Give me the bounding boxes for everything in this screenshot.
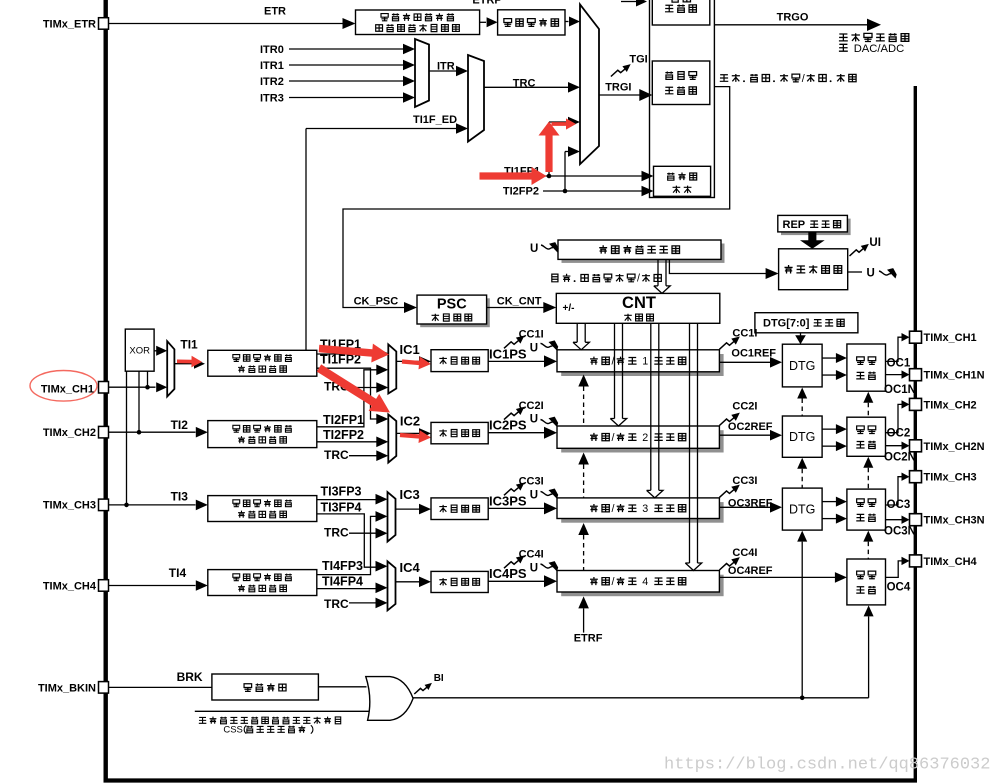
label ETR: [264, 6, 286, 18]
svg-text:TIMx_BKIN: TIMx_BKIN: [38, 683, 96, 695]
label BI: [434, 673, 444, 684]
svg-text:U: U: [867, 268, 875, 280]
svg-text:TI4: TI4: [169, 566, 187, 580]
dashed arrow ctrl3 to ctrl2: [863, 457, 873, 489]
zigzag CC4I right: [719, 557, 739, 570]
label OC3N: [884, 525, 916, 537]
wire TI4FP4: [317, 583, 388, 594]
dashed arrow capture4 to capture3: [578, 523, 589, 570]
input filter edge detector block ch1: [208, 350, 317, 376]
svg-text:DTG: DTG: [789, 503, 815, 517]
wire IC3: [396, 504, 432, 515]
pad TIMx_CH3: [910, 471, 922, 483]
svg-text:ETRF: ETRF: [574, 633, 603, 645]
label reset enable updown count: [720, 73, 856, 85]
wire TRC ch1: [349, 382, 389, 393]
wire OC2: [886, 400, 910, 433]
label TRGI: [605, 82, 631, 94]
prescaler block ch2: [431, 422, 488, 443]
label TRC ch4: [324, 597, 349, 611]
zigzag CC3I left: [504, 482, 524, 495]
svg-text:IC2PS: IC2PS: [489, 418, 527, 433]
pad TIMx_CH4: [910, 555, 922, 567]
svg-text:OC2REF: OC2REF: [728, 421, 773, 433]
red annotation arrow horizontal TI1FP1: [480, 167, 547, 185]
svg-text:U: U: [530, 562, 538, 574]
polarity select block: [212, 674, 319, 700]
label TI2: [171, 418, 189, 432]
wire TI3FP3: [317, 494, 388, 505]
wire BI to ctrl4: [864, 605, 874, 697]
label TI1: [180, 338, 198, 352]
DTG block ch2: [782, 416, 822, 457]
svg-text:TGI: TGI: [629, 54, 647, 66]
input filter block: [498, 10, 565, 35]
svg-text:TI3FP4: TI3FP4: [321, 500, 362, 514]
wire ITR0: [289, 44, 415, 55]
junction TI2FP2: [563, 189, 568, 194]
pad TIMx_CH3N: [910, 514, 922, 526]
zigzag CC1I left: [504, 335, 524, 348]
svg-text:IC4: IC4: [400, 560, 421, 575]
svg-text:TRGO: TRGO: [777, 12, 809, 24]
bottom border: [104, 778, 918, 782]
svg-text:TRC: TRC: [324, 448, 349, 462]
label TIMx_CH3: [43, 500, 96, 512]
label IC2PS: [489, 418, 527, 433]
svg-text:TI2FP2: TI2FP2: [503, 186, 539, 198]
label TIMx_CH2N: [924, 441, 985, 453]
svg-text:TI4FP3: TI4FP3: [322, 559, 363, 573]
label TI4FP3: [322, 559, 363, 573]
wire CSS to OR: [195, 710, 369, 712]
svg-text:/: /: [802, 73, 805, 85]
pad TIMx_CH2N: [910, 440, 922, 452]
svg-text:CC1I: CC1I: [519, 329, 544, 341]
wire TI1: [174, 359, 205, 369]
controller outer box: [650, 0, 715, 198]
encoder interface block: [654, 166, 711, 196]
wire TRGI: [599, 89, 652, 101]
label TI3FP3: [321, 485, 362, 499]
DTG register block: [755, 313, 858, 333]
label CC2I left: [519, 400, 544, 412]
pad TIMx_CH3: [99, 499, 109, 511]
svg-text:BI: BI: [434, 673, 444, 684]
wire TI4FP3 cross up: [317, 511, 388, 574]
svg-text:DAC/ADC: DAC/ADC: [854, 43, 905, 55]
svg-text:/: /: [612, 503, 615, 515]
capture compare register 3: [557, 498, 724, 523]
wire TI1 from pad: [109, 382, 168, 392]
svg-text:CK_PSC: CK_PSC: [354, 296, 399, 308]
hollow arrow CNT to capture2: [610, 323, 626, 426]
wire TI1F_ED: [306, 123, 468, 350]
label TI1FP1 encoder: [504, 166, 540, 178]
block arrow REP to repetition: [800, 232, 825, 249]
wire OC3REF: [719, 502, 782, 513]
hollow arrow CNT to capture4: [685, 323, 701, 570]
mux IC4 select: [388, 561, 396, 610]
wire TI2FP2 to encoder: [543, 186, 654, 197]
label TIMx_CH2: [43, 427, 96, 439]
label TI1FP1: [320, 338, 361, 352]
wire OC3N: [886, 516, 910, 524]
label stop clear updown: [552, 273, 661, 285]
junction BI: [800, 696, 805, 701]
label OC4REF: [728, 565, 773, 577]
svg-text:TIMx_CH1N: TIMx_CH1N: [924, 370, 985, 382]
svg-text:TRC: TRC: [513, 78, 536, 90]
label clock failure event: [199, 717, 341, 724]
wire ITR2: [289, 76, 415, 87]
wire IC2: [396, 428, 431, 439]
wire ETR: [109, 18, 356, 29]
capture compare register 1: [557, 350, 724, 376]
wire OC1: [886, 333, 910, 361]
capture compare register 2: [557, 426, 724, 453]
svg-text:CC4I: CC4I: [732, 547, 757, 559]
svg-text:TIMx_CH1: TIMx_CH1: [41, 383, 94, 395]
input filter edge detector block ch3: [208, 496, 317, 522]
label TI2FP2 encoder: [503, 186, 539, 198]
svg-text:DTG: DTG: [789, 430, 815, 444]
svg-text:BRK: BRK: [177, 670, 203, 684]
label U ch1: [530, 342, 538, 354]
svg-text:TI3: TI3: [171, 490, 189, 504]
dashed arrow capture3 to capture2: [578, 453, 589, 498]
zigzag TGI: [611, 64, 631, 76]
zigzag BI: [414, 683, 432, 694]
label IC3: [400, 487, 420, 502]
right bus line: [914, 86, 917, 781]
pad TIMx_CH4: [99, 580, 109, 592]
wire U repetition: [848, 271, 862, 273]
hollow arrow CNT to capture1: [573, 323, 589, 350]
svg-text:3: 3: [642, 503, 648, 515]
pad TIMx_CH1N: [910, 369, 922, 381]
svg-text:TIMx_CH3: TIMx_CH3: [924, 472, 977, 484]
prescaler block ch1: [431, 350, 488, 372]
svg-text:TIMx_CH2: TIMx_CH2: [924, 399, 977, 411]
wire XOR in CH2: [137, 371, 142, 434]
capture compare register 4: [557, 571, 724, 597]
pad TIMx_CH2: [99, 426, 109, 438]
wire IC1PS: [488, 355, 557, 367]
pad TIMx_BKIN: [99, 682, 109, 694]
svg-text:/: /: [612, 432, 615, 444]
svg-text:IC3PS: IC3PS: [489, 493, 527, 508]
squiggle U ch2: [541, 417, 559, 427]
svg-text:IC4PS: IC4PS: [489, 566, 527, 581]
label U ch3: [530, 489, 538, 501]
label U ch4: [530, 562, 538, 574]
left bus line: [103, 0, 107, 782]
wire TI2FP1 cross up: [317, 365, 389, 427]
svg-text:TRGI: TRGI: [605, 82, 631, 94]
OR gate: [366, 677, 413, 721]
pad TIMx_CH1: [99, 382, 109, 394]
pad TIMx_ETR: [99, 18, 109, 30]
zigzag CC2I right: [719, 413, 739, 426]
svg-text:DTG[7:0]: DTG[7:0]: [763, 318, 810, 330]
prescaler block ch4: [431, 571, 488, 592]
label OC2REF: [728, 421, 773, 433]
output control block ch3: [847, 489, 886, 530]
label U repetition: [867, 268, 875, 280]
label BRK: [177, 670, 203, 684]
svg-text:CC3I: CC3I: [519, 476, 544, 488]
wire CK_CNT: [487, 302, 557, 313]
svg-text:OC1REF: OC1REF: [731, 348, 776, 360]
svg-text:/: /: [612, 576, 615, 588]
red annotation arrow IC2 out: [400, 430, 431, 443]
squiggle U ch1: [541, 340, 559, 350]
junction TI1FP1: [547, 174, 552, 179]
label TIMx_CH4: [924, 556, 978, 568]
svg-text:ITR1: ITR1: [260, 60, 284, 72]
label CC1I left: [519, 329, 544, 341]
label OC3REF: [728, 497, 773, 509]
mux ITR select: [415, 39, 429, 107]
svg-text:ITR0: ITR0: [260, 44, 284, 56]
zigzag CC4I left: [504, 555, 524, 568]
svg-text:XOR: XOR: [129, 346, 150, 357]
label UI: [869, 237, 881, 249]
svg-text:IC1: IC1: [400, 342, 420, 357]
squiggle U auto-reload: [541, 242, 559, 252]
pad TIMx_CH1: [910, 331, 922, 343]
label ITR1: [260, 60, 284, 72]
repetition counter block: [779, 249, 848, 290]
wire TI2FP2 to mux: [565, 146, 580, 191]
svg-text:TI2FP1: TI2FP1: [323, 413, 364, 427]
svg-text:IC3: IC3: [400, 487, 420, 502]
squiggle U ch3: [541, 489, 559, 499]
wire slave mode feedback: [343, 87, 730, 313]
wire BRK: [109, 686, 212, 688]
wire IC1: [396, 356, 431, 367]
svg-text:OC1N: OC1N: [884, 384, 916, 396]
label CSS: [223, 725, 313, 736]
wire TRC ch4: [349, 598, 388, 609]
label TIMx_CH1: [924, 332, 977, 344]
svg-text:TIMx_ETR: TIMx_ETR: [43, 19, 96, 31]
wire XOR output: [154, 346, 167, 356]
label to DAC/ADC: [839, 43, 904, 55]
svg-text:TI2: TI2: [171, 418, 189, 432]
label CC1I right: [732, 328, 757, 340]
auto-reload register block: [558, 240, 725, 263]
label OC2N: [884, 452, 916, 464]
prescaler PSC block: [417, 295, 490, 327]
svg-text:UI: UI: [869, 237, 881, 249]
wire TI1FP1 to encoder: [534, 171, 654, 182]
wire ETRP: [480, 17, 498, 27]
label TRGO: [777, 12, 809, 24]
wire polarity to OR: [318, 686, 366, 688]
label CC4I left: [519, 549, 544, 561]
wire BI: [413, 697, 868, 699]
wire ITR3: [289, 92, 415, 103]
wire IC4PS: [488, 575, 557, 587]
svg-text:CC4I: CC4I: [519, 549, 544, 561]
svg-text:TI1: TI1: [180, 338, 198, 352]
svg-text:TI2FP2: TI2FP2: [323, 428, 364, 442]
wire TI1FP1: [317, 348, 389, 359]
svg-text:+/-: +/-: [563, 303, 575, 314]
svg-text:U: U: [530, 489, 538, 501]
svg-text:TIMx_CH4: TIMx_CH4: [924, 556, 978, 568]
dashed arrow DTG3 to DTG2: [797, 458, 807, 488]
red annotation arrow vertical: [539, 122, 560, 173]
red annotation arrow TI1FP1 to mux: [319, 344, 389, 363]
label TIMx_CH1: [41, 383, 94, 395]
red ellipse around TIMx_CH1: [30, 371, 97, 402]
label TIMx_CH2: [924, 399, 977, 411]
wire IC4: [396, 577, 432, 588]
squiggle U repetition: [879, 268, 897, 278]
label TRC: [513, 78, 536, 90]
label TI4FP4: [322, 574, 363, 588]
wire TI2FP2: [317, 437, 389, 448]
label TI2FP1: [323, 413, 364, 427]
svg-text:TRC: TRC: [324, 597, 349, 611]
svg-text:4: 4: [642, 576, 648, 588]
svg-text:TIMx_CH2N: TIMx_CH2N: [924, 441, 985, 453]
svg-text:ITR: ITR: [437, 61, 455, 73]
label TI3FP4: [321, 500, 362, 514]
zigzag CC1I right: [719, 336, 739, 349]
DTG block ch1: [782, 344, 822, 387]
red annotation arrow TI1FP2 to IC2 mux: [317, 364, 390, 412]
output control block ch4: [847, 559, 886, 605]
label ITR3: [260, 93, 284, 105]
wire TI4: [109, 580, 208, 591]
svg-text:ITR2: ITR2: [260, 76, 284, 88]
label TIMx_CH1N: [924, 370, 985, 382]
svg-text:U: U: [530, 342, 538, 354]
label IC2: [400, 414, 420, 429]
svg-text:CNT: CNT: [622, 294, 656, 312]
svg-text:ITR3: ITR3: [260, 93, 284, 105]
wire OC1REF: [719, 357, 782, 368]
label ITR2: [260, 76, 284, 88]
output control block ch2: [847, 417, 886, 456]
label ETRF: [574, 633, 603, 645]
mux IC2 select: [388, 414, 396, 462]
label TI4: [169, 566, 187, 580]
svg-text:TIMx_CH2: TIMx_CH2: [43, 427, 96, 439]
svg-text:CC3I: CC3I: [732, 475, 757, 487]
mux TI1 select: [167, 341, 174, 396]
svg-text:TIMx_CH4: TIMx_CH4: [43, 581, 97, 593]
wire TRC ch2: [349, 450, 388, 461]
red annotation arrow IC1 out: [402, 357, 431, 370]
svg-text:U: U: [530, 414, 538, 426]
label IC3PS: [489, 493, 527, 508]
label to other timers: [839, 33, 909, 41]
svg-text:OC3N: OC3N: [884, 525, 916, 537]
label IC4PS: [489, 566, 527, 581]
wire TRGO: [714, 19, 881, 31]
mux IC1 select: [388, 344, 396, 393]
svg-text:CC2I: CC2I: [732, 400, 757, 412]
svg-text:1: 1: [642, 356, 648, 368]
wire TRC: [484, 82, 580, 93]
svg-text:/: /: [637, 273, 640, 285]
svg-text:CC1I: CC1I: [732, 328, 757, 340]
label IC1: [400, 342, 420, 357]
hollow arrow CNT to capture3: [647, 323, 663, 498]
REP register block: [778, 215, 851, 235]
svg-text:ETRP: ETRP: [472, 0, 501, 7]
label IC1PS: [489, 346, 527, 361]
svg-text:OC4REF: OC4REF: [728, 565, 773, 577]
svg-text:REP: REP: [783, 219, 806, 231]
wire XOR in CH1: [145, 371, 150, 389]
svg-text:TIMx_CH3N: TIMx_CH3N: [924, 515, 985, 527]
counter CNT block: [556, 293, 720, 323]
wire DTG register to DTG1: [795, 333, 806, 344]
label OC3: [887, 499, 911, 511]
wire OC3: [886, 473, 910, 506]
XOR block: [125, 329, 154, 371]
wire TI2: [109, 427, 208, 438]
wire TI3: [109, 500, 208, 511]
dashed arrow DTG2 to DTG1: [797, 388, 807, 416]
label ITR: [437, 61, 455, 73]
svg-text:ETR: ETR: [264, 6, 286, 18]
wire reload to repetition counter: [669, 259, 778, 279]
label CK_CNT: [497, 296, 542, 308]
hollow arrow reload to CNT: [654, 259, 670, 293]
wire ITR1: [289, 60, 415, 71]
input filter edge detector block ch4: [208, 570, 317, 596]
svg-text:TI3FP3: TI3FP3: [321, 485, 362, 499]
svg-text:OC2N: OC2N: [884, 452, 916, 464]
label TIMx_CH3N: [924, 515, 985, 527]
svg-text:CK_CNT: CK_CNT: [497, 296, 542, 308]
label TIMx_CH4: [43, 581, 97, 593]
wire OC4: [886, 557, 910, 578]
dashed arrow ctrl4 to ctrl3: [863, 531, 873, 559]
wire OC2REF: [719, 430, 782, 441]
wires DTG1 to output control: [822, 353, 847, 380]
pad TIMx_CH2: [910, 398, 922, 410]
label TIMx_CH3: [924, 472, 977, 484]
wire into trigger controller: [621, 0, 647, 7]
DTG block ch3: [782, 488, 822, 530]
wire IC2PS: [488, 427, 557, 439]
svg-text:2: 2: [642, 432, 648, 444]
wires DTG2 to output control: [822, 424, 847, 451]
svg-text:TIMx_CH1: TIMx_CH1: [924, 332, 977, 344]
wire ITR: [429, 66, 468, 77]
label OC1N: [884, 384, 916, 396]
zigzag UI: [850, 244, 869, 256]
label ETRP: [472, 0, 501, 7]
slave mode controller block: [652, 61, 710, 105]
label TI2FP2: [323, 428, 364, 442]
wire BI to DTG3: [797, 531, 807, 698]
wire OC4REF: [719, 572, 847, 583]
wire XOR in CH3: [124, 371, 129, 507]
mux IC3 select: [388, 492, 396, 541]
svg-text:OC1: OC1: [887, 357, 911, 369]
wire OC1N: [886, 370, 910, 378]
watermark: [664, 756, 990, 775]
